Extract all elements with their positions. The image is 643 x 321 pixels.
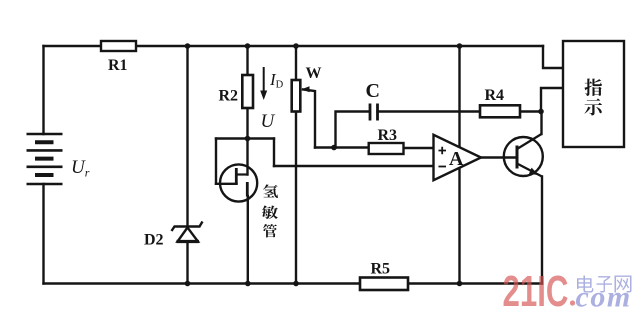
op-amp + sign xyxy=(439,147,447,154)
watermark 网 xyxy=(614,275,631,292)
wire bottom rail right of R5 xyxy=(408,282,542,284)
resistor R4 xyxy=(480,105,520,117)
svg-text:R2: R2 xyxy=(219,88,239,105)
wire R3 to op-amp + input xyxy=(404,147,434,149)
svg-text:D2: D2 xyxy=(144,232,164,249)
wire C right plate to R4 left lead xyxy=(378,110,481,112)
wire top rail xyxy=(44,45,544,47)
wire W bottom lead xyxy=(295,112,297,284)
svg-text:R1: R1 xyxy=(108,57,128,74)
junction dot R4/collector/indicator xyxy=(538,109,544,115)
junction dots bottom rail xyxy=(185,281,191,287)
wire Q2 collector vertical xyxy=(540,112,542,135)
wire W top lead xyxy=(295,46,297,80)
wire gate lead xyxy=(216,183,237,185)
watermark 子 xyxy=(596,276,611,292)
svg-text:C: C xyxy=(366,80,380,102)
current arrow ID xyxy=(260,67,267,100)
wire R4 right lead xyxy=(520,110,541,112)
svg-text:R3: R3 xyxy=(378,127,398,144)
label 敏 xyxy=(262,205,278,219)
svg-text:21IC: 21IC xyxy=(503,267,569,316)
watermark .com xyxy=(570,300,575,305)
wire collector node to indicator box xyxy=(541,88,563,112)
svg-text:com: com xyxy=(576,281,632,314)
wire Q2 emitter vertical xyxy=(541,177,543,284)
wire gate-drain tie horizontal (node U) xyxy=(216,137,274,139)
svg-text:R5: R5 xyxy=(371,261,391,278)
wire op-amp output to Q2 base xyxy=(481,156,517,158)
wire to inverting input (horizontal) xyxy=(274,165,434,167)
wire left rail (battery bottom lead) xyxy=(42,184,44,284)
label 氢 xyxy=(263,184,278,198)
resistor R3 xyxy=(369,143,404,154)
battery B (Ur) plates xyxy=(27,134,63,184)
wire sensor source lead xyxy=(247,196,249,284)
label 管 xyxy=(263,224,277,237)
hydrogen sensor tube Q1 xyxy=(220,164,257,201)
wire left rail (battery top lead) xyxy=(42,46,44,134)
wire D2 branch top xyxy=(186,46,188,226)
wire gate loop vertical xyxy=(215,139,217,184)
junction dots top rail xyxy=(185,43,191,49)
node U junction dot xyxy=(245,136,251,142)
svg-text:A: A xyxy=(449,148,464,170)
transistor Q2 xyxy=(504,134,543,177)
wire op-amp supply line xyxy=(458,46,460,284)
wire D2 branch bottom xyxy=(186,242,188,284)
wire R2 bottom lead / sensor drain xyxy=(246,108,248,175)
op-amp - sign xyxy=(439,166,447,168)
wire bottom rail left of R5 xyxy=(44,282,361,284)
watermark 21IC xyxy=(503,267,569,317)
label 示 xyxy=(585,98,603,115)
resistor R5 xyxy=(360,278,408,291)
W wiper arrowhead xyxy=(302,86,310,92)
resistor R2 xyxy=(242,75,253,108)
wire top rail step into indicator box xyxy=(543,46,563,68)
op-amp U1 (A) xyxy=(434,135,482,180)
wire wiper junction to R3 xyxy=(315,146,369,148)
potentiometer W xyxy=(292,80,301,112)
label 指 xyxy=(584,78,601,96)
capacitor C plates xyxy=(370,104,378,121)
wire to inverting input (step down) xyxy=(273,139,275,167)
svg-text:R4: R4 xyxy=(485,87,505,104)
Q2 emitter arrowhead xyxy=(529,168,539,175)
resistor R1 xyxy=(101,41,136,51)
wire W wiper to junction xyxy=(303,90,315,148)
junction dot wiper/C/R3 xyxy=(331,145,337,151)
svg-text:U: U xyxy=(261,111,276,132)
watermark 电 xyxy=(577,275,594,292)
indicator box 指示 xyxy=(563,41,624,147)
zener diode D2 xyxy=(172,222,203,242)
svg-text:W: W xyxy=(306,65,322,82)
wire C branch vertical xyxy=(336,112,370,148)
wire R2 top lead xyxy=(246,46,248,75)
